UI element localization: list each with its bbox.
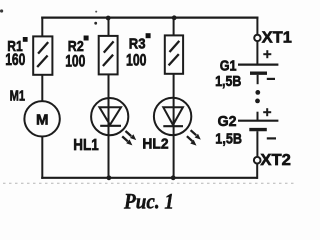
label XT2 [260,152,291,169]
resistor R3 [165,35,183,73]
svg-text:1,5В: 1,5В [215,130,242,147]
node junction top of R2 branch [106,16,111,21]
battery G1 negative plate (short thick) [250,71,267,74]
HL1 emission arrows [122,131,136,145]
HL2 emission arrows [187,130,201,145]
wire above G2 [257,112,259,121]
motor M1 [24,101,59,136]
label R3 with asterisk and value 100 [126,33,151,69]
svg-text:160: 160 [5,50,25,69]
dotted continuation between cells [255,90,260,103]
wire XT1 to G1 [256,41,258,65]
wire bottom bus [41,177,257,179]
svg-text:Рис. 1: Рис. 1 [123,189,174,214]
terminal XT1 [254,35,260,41]
G2 plus sign [263,108,271,116]
label HL1 [73,137,99,154]
node junction bottom of HL1 branch [107,175,112,180]
svg-text:M1: M1 [10,87,25,104]
node junction bottom of HL2 branch [171,175,176,180]
svg-text:100: 100 [126,50,147,69]
wire G2 to XT2 [256,131,258,157]
node junction top of R3 branch [172,15,177,20]
wire top bus [41,17,258,19]
svg-text:XT1: XT1 [262,30,292,47]
terminal XT2 [254,157,261,164]
label R1 with asterisk and value 160 [5,37,27,69]
wire below G1 [257,75,259,84]
svg-text:G1: G1 [220,57,237,74]
wire top-right to XT1 [256,17,258,35]
resistor R2 [99,36,118,75]
label M1 [10,87,25,104]
G1 minus sign [267,78,275,80]
battery G2 positive plate (long) [238,120,278,122]
wire R1 to M1 [41,74,43,101]
svg-text:XT2: XT2 [260,152,291,169]
svg-text:M: M [36,111,49,128]
svg-text:G2: G2 [218,113,237,130]
wire M1 to bottom bus [41,136,43,179]
LED HL2 [154,98,191,135]
svg-text:HL2: HL2 [142,136,168,153]
label G1 [220,57,237,74]
label G2 value 1,5V [215,130,242,147]
G1 plus sign [263,50,271,58]
battery G2 negative plate (short thick) [249,128,266,131]
svg-text:1,5В: 1,5В [215,73,241,90]
LED HL1 [91,98,128,135]
label R2 with asterisk and value 100 [65,36,88,71]
wire left branch to R1 [41,17,43,38]
wire XT2 to bottom bus [256,163,258,179]
svg-text:HL1: HL1 [73,137,99,154]
battery G1 positive plate (long) [238,63,278,65]
G2 minus sign [267,137,276,139]
wire branch 3 (R3/HL2) vertical [173,17,175,178]
label HL2 [142,136,168,153]
stray scan specks [0,9,97,24]
resistor R1 [33,36,52,74]
wire branch 2 (R2/HL1) vertical [108,17,110,178]
caption Fig. 1 [123,189,174,214]
faint dotted page border fragment (bottom) [3,182,296,184]
label G1 value 1,5V [215,73,241,90]
svg-text:100: 100 [65,51,85,70]
label XT1 [262,30,292,47]
label G2 [218,113,237,130]
